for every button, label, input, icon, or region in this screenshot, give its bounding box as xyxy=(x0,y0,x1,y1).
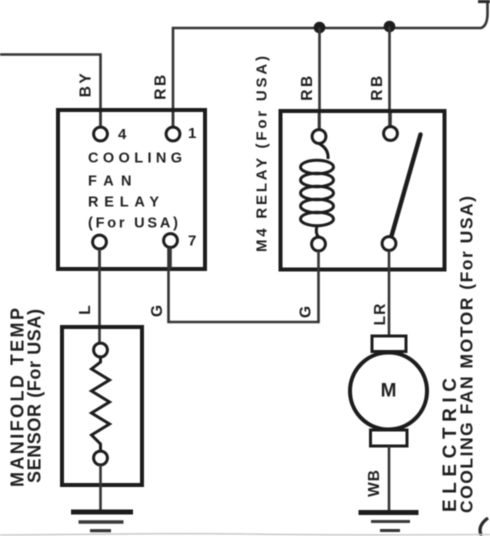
page corner mark bottom right xyxy=(480,518,488,536)
M4 relay box xyxy=(281,111,445,270)
junction node right xyxy=(384,21,396,33)
cooling fan relay box xyxy=(58,110,205,269)
coil loop 2 xyxy=(301,173,334,186)
svg-text:BY: BY xyxy=(78,71,95,98)
ground symbol left line 1 xyxy=(71,510,133,515)
relay pin 1 terminal xyxy=(166,127,180,141)
svg-text:G: G xyxy=(298,306,315,318)
sensor wire to ground xyxy=(99,465,102,512)
wire RB from relay pin 1 up and right to top edge xyxy=(173,2,488,127)
motor bottom brush xyxy=(371,430,408,446)
svg-text:4: 4 xyxy=(118,126,127,143)
coil U1 lead top xyxy=(319,144,328,160)
svg-text:RB: RB xyxy=(153,72,170,99)
motor body xyxy=(350,353,427,430)
M4 coil top terminal xyxy=(312,130,326,144)
coil loop 5 xyxy=(301,212,334,225)
svg-text:1: 1 xyxy=(188,125,196,142)
relay pin 1 stub xyxy=(172,112,175,128)
relay pin 7 terminal xyxy=(164,234,178,248)
M4 coil top stub xyxy=(318,113,321,130)
ground symbol right line 1 xyxy=(359,510,419,515)
wire WB motor to ground xyxy=(388,446,391,512)
svg-text:SENSOR (For USA): SENSOR (For USA) xyxy=(25,309,45,483)
relay lower left terminal xyxy=(93,235,107,249)
svg-text:COOLING: COOLING xyxy=(88,151,182,167)
coil loop 3 xyxy=(301,186,334,199)
svg-text:WB: WB xyxy=(366,469,383,497)
wire L relay to sensor xyxy=(98,250,101,343)
manifold temp sensor box xyxy=(62,327,142,485)
wire RB junction to M4 switch pin xyxy=(388,27,391,127)
ground symbol right line 2 xyxy=(371,520,410,523)
svg-text:M4 RELAY (For USA): M4 RELAY (For USA) xyxy=(254,56,271,252)
relay pin 4 terminal xyxy=(94,127,108,141)
relay lower-left stub xyxy=(98,249,101,269)
coil lead bottom xyxy=(316,226,318,237)
coil loop 1 xyxy=(301,160,334,173)
M4 coil bottom terminal xyxy=(312,237,326,251)
motor top brush xyxy=(372,336,406,352)
ground symbol left line 3 xyxy=(90,529,111,532)
wire continuation dash top right xyxy=(478,0,490,3)
svg-text:L: L xyxy=(77,305,94,314)
relay pin 4 stub xyxy=(99,112,102,128)
svg-text:RELAY: RELAY xyxy=(88,195,159,211)
wire RB junction to M4 coil pin xyxy=(318,28,321,130)
svg-text:(For USA): (For USA) xyxy=(88,216,178,232)
sensor bottom terminal xyxy=(94,451,108,465)
junction node left xyxy=(314,22,326,34)
svg-text:G: G xyxy=(149,305,166,317)
relay pin 7 stub xyxy=(169,248,172,270)
M4 switch top terminal xyxy=(384,127,398,141)
svg-text:RB: RB xyxy=(299,73,316,100)
coil loop 4 xyxy=(301,199,334,212)
svg-text:FAN: FAN xyxy=(88,174,132,190)
M4 switch blade xyxy=(392,135,421,237)
wire BY from left edge to relay pin 4 xyxy=(0,55,101,128)
wire LR M4 switch to motor xyxy=(388,251,391,338)
svg-text:7: 7 xyxy=(188,233,196,250)
M4 switch bottom terminal xyxy=(382,237,396,251)
svg-text:COOLING FAN MOTOR (For USA): COOLING FAN MOTOR (For USA) xyxy=(457,196,477,513)
ground symbol left line 2 xyxy=(79,520,124,524)
sensor top terminal xyxy=(94,343,108,357)
ground symbol right line 3 xyxy=(380,529,400,532)
svg-text:LR: LR xyxy=(372,303,389,326)
svg-text:M: M xyxy=(381,381,397,402)
wire G from M4 coil to relay pin 7 xyxy=(169,248,319,323)
M4 switch top stub xyxy=(389,113,392,127)
resistor R1 zigzag xyxy=(92,357,110,451)
svg-text:RB: RB xyxy=(369,73,386,100)
page bottom edge xyxy=(0,534,490,535)
